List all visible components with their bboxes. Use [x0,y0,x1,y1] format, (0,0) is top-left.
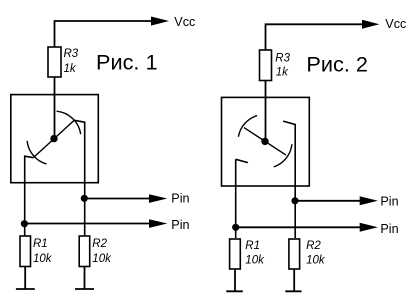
svg-text:Рис. 1: Рис. 1 [96,50,158,75]
svg-text:10k: 10k [92,253,112,265]
svg-text:R3: R3 [64,48,79,60]
svg-text:Pin: Pin [171,192,189,206]
svg-text:1k: 1k [276,67,289,79]
svg-text:Pin: Pin [171,218,189,232]
svg-text:Рис. 2: Рис. 2 [306,52,368,77]
svg-text:R2: R2 [92,238,107,250]
svg-text:10k: 10k [33,253,53,265]
svg-text:10k: 10k [245,255,265,267]
svg-text:Vcc: Vcc [174,15,195,29]
svg-text:R2: R2 [306,240,321,252]
svg-text:Pin: Pin [380,195,398,209]
svg-text:1k: 1k [64,63,77,75]
svg-text:R1: R1 [245,240,260,252]
svg-text:Vcc: Vcc [385,17,406,31]
svg-text:R3: R3 [275,53,290,65]
svg-text:R1: R1 [33,238,48,250]
svg-text:10k: 10k [306,255,326,267]
svg-text:Pin: Pin [380,222,398,236]
